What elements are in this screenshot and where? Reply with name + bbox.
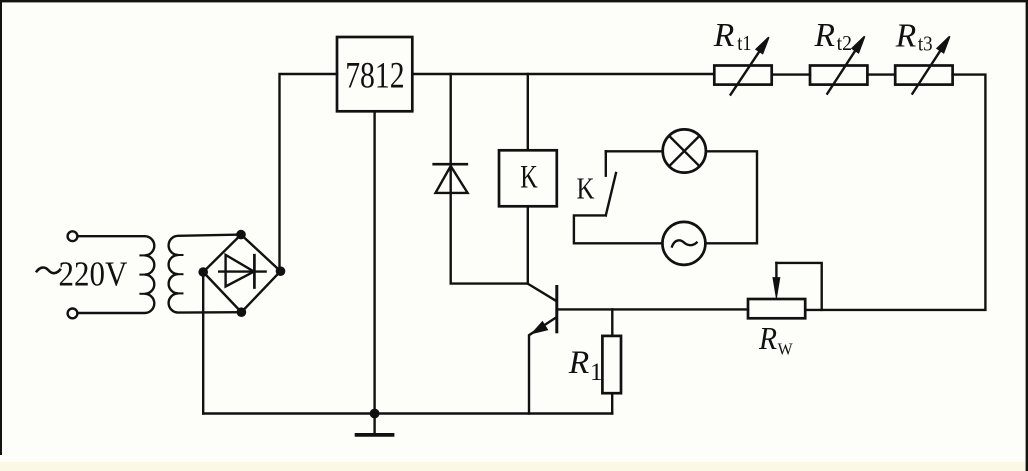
thermistor Rt1 arrow — [731, 50, 761, 95]
wire rail to diode branch — [451, 74, 528, 284]
relay coil K box — [499, 150, 557, 206]
wire rail to relay coil — [527, 74, 529, 150]
wire Rt2 to Rt3 — [867, 73, 895, 75]
potentiometer Rw wiper loop wire — [776, 263, 821, 310]
bridge junction dot left — [198, 267, 208, 277]
ground node junction dot — [370, 409, 380, 419]
resistor R1 box — [602, 336, 621, 393]
thermistor Rt2 box — [810, 66, 867, 85]
wire bridge right vertex to top rail — [280, 74, 338, 271]
diode VD flyback cathode bar — [434, 163, 467, 166]
wire R1 bottom stub — [611, 393, 613, 413]
svg-text:220V: 220V — [59, 254, 128, 293]
wire base to R1 and Rw — [557, 308, 748, 310]
wire relay coil to collector node — [527, 206, 529, 283]
transistor V emitter arrow — [533, 322, 548, 333]
svg-text:R: R — [758, 320, 777, 356]
bridge junction dot bottom — [237, 307, 247, 317]
label ~220V — [36, 268, 61, 274]
bridge inner diode lead — [219, 270, 265, 272]
svg-text:R: R — [713, 17, 735, 54]
svg-text:K: K — [520, 159, 538, 195]
svg-text:7812: 7812 — [345, 56, 404, 97]
wire Rt1 to Rt2 — [772, 73, 810, 75]
thermistor Rt3 box — [895, 66, 952, 85]
ground symbol — [373, 414, 375, 434]
AC source terminal upper — [68, 231, 78, 241]
AC source terminal lower — [68, 309, 78, 319]
svg-text:R: R — [895, 17, 917, 54]
wire bridge left vertex to ground rail — [202, 272, 204, 414]
thermistor Rt3 arrow — [912, 49, 941, 93]
svg-text:K: K — [577, 171, 595, 206]
bell HA tilde — [672, 240, 697, 246]
svg-text:t3: t3 — [918, 31, 933, 55]
transistor V emitter lead — [529, 317, 556, 413]
transformer T primary winding — [78, 236, 155, 313]
wire switch to bell — [574, 215, 663, 243]
thermistor Rt1 box — [714, 66, 771, 85]
wire Rt3 to right vertical — [805, 75, 985, 310]
wire 7812 ground pin down — [373, 111, 375, 413]
svg-text:R: R — [568, 345, 590, 381]
wire 7812 output to rail — [412, 73, 714, 75]
lamp HL circle — [663, 129, 706, 172]
wire lamp to right corner — [705, 151, 757, 243]
diode VD flyback triangle — [436, 166, 468, 193]
wire R1 top stub — [611, 309, 613, 336]
potentiometer Rw box — [748, 299, 805, 318]
switch K fixed contact — [605, 151, 607, 175]
ground rail wire — [203, 412, 612, 414]
bridge rectifier diamond — [203, 235, 280, 313]
svg-text:t2: t2 — [837, 31, 852, 55]
potentiometer Rw wiper arrow — [775, 263, 777, 280]
thermistor Rt2 arrow — [827, 49, 856, 93]
transformer T secondary winding — [169, 235, 242, 313]
bridge inner diode triangle — [226, 255, 254, 287]
svg-text:1: 1 — [590, 359, 603, 386]
bridge junction dot right — [276, 266, 286, 276]
voltage regulator U1 7812 box — [337, 37, 412, 111]
svg-text:R: R — [814, 17, 836, 54]
transistor V base bar — [555, 287, 558, 332]
lamp HL cross — [669, 136, 700, 167]
transistor V collector lead — [528, 284, 556, 301]
bell HA circle — [662, 222, 705, 265]
bridge inner diode cathode bar — [253, 255, 256, 287]
wire switch top to lamp — [606, 150, 663, 152]
switch K blade — [606, 173, 616, 215]
bridge junction dot top — [236, 230, 246, 240]
svg-text:W: W — [778, 340, 793, 359]
svg-text:t1: t1 — [737, 31, 751, 55]
